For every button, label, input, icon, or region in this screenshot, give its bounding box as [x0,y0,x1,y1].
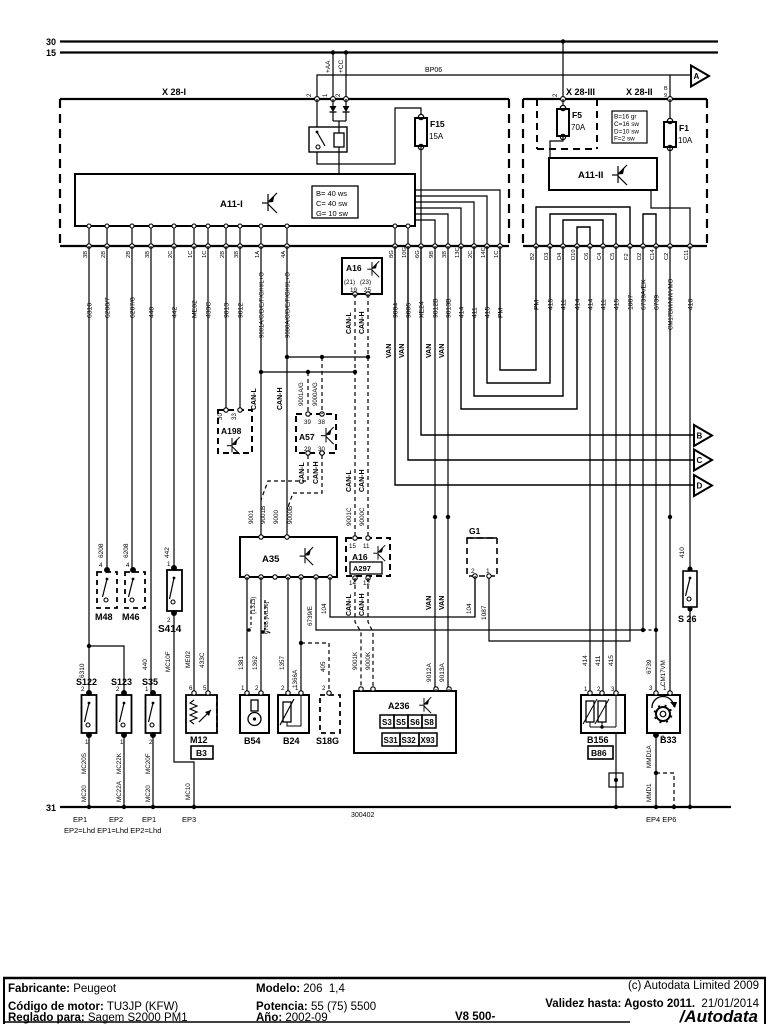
svg-text:39: 39 [304,419,311,426]
svg-text:C14: C14 [650,249,656,260]
svg-text:411: 411 [601,299,608,310]
svg-text:MC20: MC20 [145,785,152,802]
svg-text:1357: 1357 [279,655,286,670]
svg-text:8G: 8G [389,250,395,258]
svg-text:15: 15 [349,543,356,550]
svg-text:S5: S5 [396,718,406,727]
svg-text:2B: 2B [101,251,107,258]
svg-text:B86: B86 [591,748,607,758]
svg-text:CAN-L: CAN-L [251,388,258,410]
svg-text:S 26: S 26 [678,614,697,624]
svg-text:442: 442 [172,306,179,318]
svg-text:15A: 15A [429,132,444,141]
svg-text:4: 4 [99,562,103,569]
svg-text:MC22K: MC22K [116,752,123,774]
svg-text:CAN-H: CAN-H [313,461,320,484]
svg-text:Reglado para: Sagem S2000 PM1: Reglado para: Sagem S2000 PM1 [8,1012,188,1024]
svg-text:A11-I: A11-I [220,199,243,210]
svg-text:11: 11 [363,543,370,550]
svg-text:C11: C11 [684,250,690,260]
svg-text:1C: 1C [202,251,208,258]
svg-text:D2: D2 [637,253,643,260]
svg-text:B=16 gr: B=16 gr [614,114,637,121]
svg-text:9000B: 9000B [287,506,294,524]
svg-text:442: 442 [164,547,171,558]
svg-text:410: 410 [688,298,695,310]
svg-text:300402: 300402 [351,812,374,819]
svg-text:2: 2 [661,735,665,742]
svg-text:ME02: ME02 [185,651,192,668]
svg-text:CAN-H: CAN-H [359,311,366,334]
svg-text:30: 30 [217,413,224,420]
svg-text:M12: M12 [190,735,208,745]
svg-text:6785 [M136]: 6785 [M136] [264,601,270,634]
svg-text:S123: S123 [111,677,132,687]
svg-text:70A: 70A [571,123,586,132]
svg-text:1C: 1C [494,251,500,258]
svg-text:(c) Autodata Limited 2009: (c) Autodata Limited 2009 [628,980,759,992]
svg-text:1362: 1362 [252,655,259,670]
svg-text:S8: S8 [424,718,434,727]
svg-text:A16: A16 [352,552,368,562]
svg-text:33: 33 [231,413,238,420]
svg-text:2: 2 [255,685,259,692]
svg-text:X 28-III: X 28-III [566,87,595,97]
svg-text:9001C: 9001C [346,507,353,526]
svg-text:C=16 sw: C=16 sw [614,121,639,128]
svg-text:38: 38 [318,419,325,426]
svg-text:A: A [694,72,700,81]
svg-text:104: 104 [466,603,473,614]
svg-text:S122: S122 [76,677,97,687]
svg-text:A236: A236 [388,701,410,711]
svg-text:M46: M46 [122,612,140,622]
svg-text:S31: S31 [384,736,399,745]
svg-text:A16: A16 [346,263,362,273]
svg-text:CAN-L: CAN-L [346,594,353,616]
svg-text:(1313): (1313) [251,597,257,614]
svg-text:+CC: +CC [338,60,345,73]
svg-text:6208/7: 6208/7 [105,297,112,318]
svg-text:VAN: VAN [439,344,446,358]
svg-text:104: 104 [321,603,328,614]
svg-text:MC10: MC10 [185,783,192,800]
svg-text:VAN: VAN [399,344,406,358]
svg-text:VAN: VAN [426,344,433,358]
svg-text:MC20: MC20 [81,785,88,802]
svg-text:415: 415 [614,298,621,310]
svg-text:C: C [697,456,703,465]
svg-text:6739: 6739 [654,295,661,310]
svg-text:C5: C5 [610,253,616,260]
svg-text:Año: 2002-09: Año: 2002-09 [256,1012,328,1024]
svg-text:1C: 1C [188,251,194,258]
svg-text:B3: B3 [196,748,207,758]
svg-text:XE24: XE24 [419,301,426,318]
svg-text:C4: C4 [597,252,603,260]
svg-text:6208: 6208 [123,543,130,558]
svg-text:414: 414 [459,306,466,318]
svg-text:CAN-H: CAN-H [277,387,284,410]
svg-text:2: 2 [322,685,326,692]
svg-text:440: 440 [149,306,156,318]
svg-text:9001K: 9001K [352,651,359,670]
svg-text:VAN: VAN [439,596,446,610]
svg-text:X 28-I: X 28-I [162,87,186,97]
svg-text:2: 2 [281,685,285,692]
svg-text:410: 410 [679,547,686,558]
svg-text:2: 2 [167,617,171,624]
svg-text:MC20S: MC20S [81,753,88,774]
svg-text:414: 414 [582,655,589,666]
svg-text:A57: A57 [299,432,315,442]
svg-text:Modelo: 206 1,4: Modelo: 206 1,4 [256,983,345,995]
svg-text:415: 415 [608,655,615,666]
svg-text:PM: PM [498,307,505,318]
svg-text:411: 411 [472,307,479,318]
svg-text:EP4 EP6: EP4 EP6 [646,815,676,824]
svg-text:+AA: +AA [325,60,332,73]
svg-text:1087: 1087 [628,295,635,310]
svg-text:1: 1 [167,561,171,568]
svg-text:14C: 14C [481,247,487,258]
svg-text:2C: 2C [468,251,474,258]
svg-text:3B: 3B [234,251,240,258]
svg-text:3B: 3B [83,251,89,258]
svg-text:9000: 9000 [273,509,280,524]
svg-text:MC22A: MC22A [116,780,123,802]
svg-text:3: 3 [649,685,653,692]
svg-text:9013: 9013 [224,303,231,318]
svg-text:15: 15 [46,48,56,58]
svg-text:9: 9 [664,93,667,99]
svg-text:CAN-L: CAN-L [346,470,353,492]
svg-text:2C: 2C [168,251,174,258]
svg-text:1A: 1A [255,251,261,258]
svg-text:MC20F: MC20F [145,753,152,774]
svg-text:6310: 6310 [79,663,86,678]
svg-text:2B: 2B [126,251,132,258]
svg-text:4A: 4A [281,251,287,258]
svg-text:BP06: BP06 [425,67,442,74]
svg-text:1: 1 [663,685,667,692]
svg-text:C= 40 sw: C= 40 sw [316,199,348,208]
svg-text:9012: 9012 [238,303,245,318]
svg-text:12: 12 [363,580,370,587]
svg-text:A198: A198 [221,426,242,436]
svg-text:415: 415 [485,306,492,318]
svg-text:1: 1 [145,686,149,693]
svg-text:S32: S32 [402,736,417,745]
svg-text:9B: 9B [429,251,435,258]
svg-text:D3: D3 [544,253,550,260]
svg-text:S18G: S18G [316,736,339,746]
svg-text:G= 10 sw: G= 10 sw [316,209,348,218]
svg-text:CAN-H: CAN-H [359,469,366,492]
svg-text:D: D [697,482,703,491]
svg-text:F15: F15 [430,119,445,129]
svg-text:C6: C6 [584,253,590,260]
svg-text:1381: 1381 [238,655,245,670]
svg-text:13C: 13C [455,247,461,258]
svg-text:MMD1: MMD1 [646,783,653,802]
svg-text:F5: F5 [572,110,582,120]
svg-text:PM: PM [534,299,541,310]
svg-text:415: 415 [548,298,555,310]
svg-text:433C: 433C [206,302,213,318]
svg-text:B: B [697,432,703,441]
svg-text:D10: D10 [571,249,577,260]
svg-text:EP1: EP1 [142,815,156,824]
svg-text:C2: C2 [664,253,670,260]
svg-text:D=10 sw: D=10 sw [614,128,639,135]
svg-text:9004: 9004 [393,303,400,318]
svg-text:1: 1 [241,685,245,692]
svg-text:EP2: EP2 [109,815,123,824]
svg-text:B= 40 ws: B= 40 ws [316,189,347,198]
svg-text:9000K: 9000K [365,651,372,670]
svg-text:414: 414 [588,298,595,310]
svg-text:EP3: EP3 [182,815,196,824]
svg-text:(21): (21) [344,279,355,286]
svg-text:9005: 9005 [406,303,413,318]
svg-text:10G: 10G [402,247,408,258]
svg-text:6739A/EK: 6739A/EK [641,279,648,310]
svg-text:CAN-L: CAN-L [299,462,306,484]
svg-text:CAN-L: CAN-L [346,312,353,334]
svg-text:6310: 6310 [87,303,94,318]
svg-text:D4: D4 [557,252,563,260]
svg-text:405: 405 [320,661,327,672]
svg-text:CAN-H: CAN-H [359,593,366,616]
svg-text:VAN: VAN [386,344,393,358]
svg-text:31: 31 [46,803,56,813]
svg-text:3B: 3B [442,251,448,258]
svg-text:EP2=Lhd EP1=Lhd EP2=Lhd: EP2=Lhd EP1=Lhd EP2=Lhd [64,826,161,835]
svg-text:10A: 10A [678,136,693,145]
svg-text:S6: S6 [410,718,420,727]
svg-text:/Autodata: /Autodata [679,1007,758,1024]
svg-text:VAN: VAN [426,596,433,610]
svg-text:A11-II: A11-II [578,170,603,181]
svg-text:6739: 6739 [646,659,653,674]
svg-text:X 28-II: X 28-II [626,87,653,97]
svg-text:B156: B156 [587,735,609,745]
svg-text:B: B [664,86,668,92]
svg-text:MC10F: MC10F [165,651,172,672]
svg-text:F=2 sw: F=2 sw [614,136,635,143]
svg-text:6: 6 [189,685,193,692]
svg-text:S414: S414 [158,624,182,635]
svg-text:Fabricante: Peugeot: Fabricante: Peugeot [8,983,117,995]
svg-text:411: 411 [561,299,568,310]
svg-text:CM17VM: CM17VM [660,660,667,686]
svg-text:(23): (23) [360,279,371,286]
svg-text:2: 2 [116,686,120,693]
svg-text:9000A/G: 9000A/G [313,382,319,406]
svg-text:EP1: EP1 [73,815,87,824]
svg-text:ME02: ME02 [192,300,199,318]
svg-text:MMD1A: MMD1A [646,744,653,768]
svg-text:B2: B2 [530,253,536,260]
svg-text:440: 440 [142,659,149,670]
svg-text:F1: F1 [679,123,689,133]
svg-text:411: 411 [595,655,602,666]
svg-text:A35: A35 [262,554,280,565]
svg-text:6208: 6208 [98,543,105,558]
svg-text:9001A/G: 9001A/G [299,382,305,406]
svg-text:4: 4 [126,562,130,569]
svg-text:9000C: 9000C [359,507,366,526]
svg-text:2: 2 [81,686,85,693]
svg-text:V8 500-: V8 500- [455,1011,495,1023]
svg-text:X93: X93 [421,736,436,745]
svg-text:M48: M48 [95,612,113,622]
svg-text:9012B: 9012B [433,298,440,318]
svg-text:A297: A297 [353,564,371,573]
svg-text:433C: 433C [199,652,206,668]
svg-text:9012A: 9012A [426,663,433,682]
svg-text:S3: S3 [382,718,392,727]
svg-text:9001: 9001 [248,509,255,524]
svg-text:6207/8: 6207/8 [130,297,137,318]
svg-text:2B: 2B [220,251,226,258]
svg-text:G1: G1 [469,526,481,536]
svg-text:F2: F2 [624,253,630,260]
svg-text:S35: S35 [142,677,158,687]
svg-text:9013B: 9013B [446,298,453,318]
svg-text:1087: 1087 [481,605,488,620]
svg-text:414: 414 [575,298,582,310]
svg-text:3B: 3B [145,251,151,258]
svg-text:1: 1 [295,685,299,692]
svg-text:5: 5 [203,685,207,692]
svg-text:6739/E: 6739/E [307,606,314,626]
svg-text:B24: B24 [283,736,300,746]
svg-text:6G: 6G [415,250,421,258]
svg-text:9013A: 9013A [439,663,446,682]
svg-text:30: 30 [46,37,56,47]
svg-text:B54: B54 [244,736,261,746]
svg-text:9001B: 9001B [260,506,267,524]
